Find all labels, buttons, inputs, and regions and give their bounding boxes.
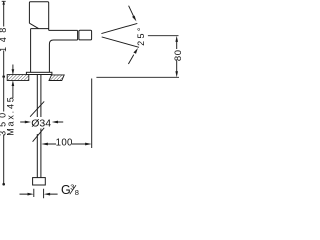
svg-text:80: 80	[173, 50, 182, 62]
svg-text:8: 8	[75, 188, 79, 197]
svg-text:25°: 25°	[136, 25, 146, 46]
svg-text:Max.45: Max.45	[6, 95, 16, 135]
svg-text:148: 148	[0, 23, 8, 52]
svg-text:Ø34: Ø34	[31, 117, 51, 129]
svg-text:100: 100	[56, 138, 73, 149]
